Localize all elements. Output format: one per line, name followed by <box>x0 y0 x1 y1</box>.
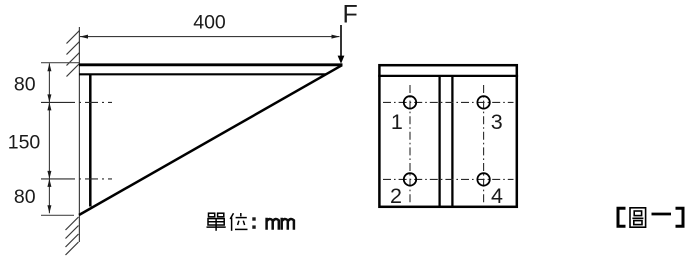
wall hatching bottom <box>66 217 79 255</box>
svg-text:3: 3 <box>491 110 503 134</box>
bracket diagonal brace <box>79 65 342 215</box>
beam top flange top line <box>79 63 343 66</box>
svg-text:80: 80 <box>14 186 36 208</box>
caption mm <box>267 218 294 230</box>
svg-text:400: 400 <box>193 12 226 34</box>
svg-text:4: 4 <box>491 184 503 208</box>
plate flange edge line <box>378 75 518 77</box>
hole 3 <box>477 96 489 108</box>
hole 4 <box>477 173 489 185</box>
wall hatching top <box>67 31 80 77</box>
bracket 【 <box>618 208 626 226</box>
dimension label 400 <box>193 12 226 34</box>
vertical centerline holes 3-4 <box>483 85 485 203</box>
svg-text:1: 1 <box>391 110 403 134</box>
hole 1 <box>404 96 416 108</box>
hole number 4 <box>491 184 503 208</box>
svg-text:80: 80 <box>14 74 36 96</box>
hole number 3 <box>491 110 503 134</box>
svg-text:150: 150 <box>8 132 41 154</box>
glyph 一 <box>652 213 672 216</box>
beam top flange bottom line <box>79 73 326 75</box>
hole number 1 <box>391 110 403 134</box>
leg edge line left <box>438 76 440 207</box>
horizontal centerline holes 1-3 <box>383 101 514 103</box>
extension line bottom <box>41 214 74 216</box>
force F arrow <box>338 25 345 64</box>
centerline lower hole row (left view) <box>41 178 112 180</box>
dimension label 150 <box>8 132 41 154</box>
glyph 位 <box>230 213 247 231</box>
leg edge line right <box>451 76 453 207</box>
bracket vertical leg <box>89 74 92 207</box>
left dimension arrowheads <box>47 63 51 213</box>
dimension 400 arrowheads <box>80 35 340 39</box>
colon of caption <box>252 217 255 228</box>
hole number 2 <box>390 184 402 208</box>
glyph 圖 <box>630 208 646 227</box>
plate outline (front view) <box>379 65 516 207</box>
wall line <box>78 27 80 242</box>
vertical centerline holes 1-2 <box>409 85 411 203</box>
unit caption 單位：mm <box>207 213 248 231</box>
hole 2 <box>404 173 416 185</box>
dimension label 80 top <box>14 74 36 96</box>
extension line top <box>41 62 79 64</box>
label F <box>343 1 358 29</box>
svg-text:2: 2 <box>390 184 402 208</box>
glyph 單 <box>207 213 226 231</box>
svg-text:F: F <box>343 1 358 29</box>
figure caption 【圖一】 <box>618 208 683 227</box>
bracket 】 <box>676 208 684 226</box>
dimension 400 line <box>80 36 340 38</box>
dimension label 80 bottom <box>14 186 36 208</box>
left dimension chain line <box>48 63 50 213</box>
centerline upper hole row (left view) <box>41 101 112 103</box>
horizontal centerline holes 2-4 <box>383 178 514 180</box>
